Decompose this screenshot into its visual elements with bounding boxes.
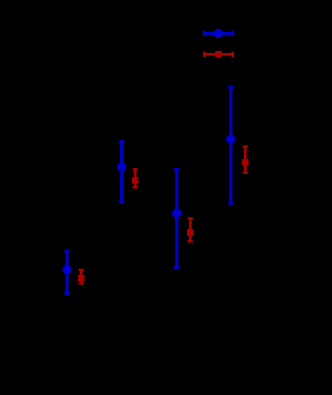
- blue point 1 circle marker: [62, 265, 71, 274]
- legend red series: error bar line: [204, 53, 232, 56]
- red point 3 error bar line: [189, 218, 192, 241]
- red point 3 top cap: [188, 217, 193, 219]
- red point 1 top cap: [79, 269, 84, 271]
- blue point 2 top cap: [119, 140, 124, 143]
- blue point 4 circle marker: [226, 134, 235, 143]
- blue point 3 top cap: [174, 168, 179, 171]
- red point 2 error bar line: [134, 169, 137, 187]
- red point 3 square marker: [187, 229, 194, 236]
- blue point 4 error bar line: [229, 87, 232, 203]
- legend red series: square marker: [215, 51, 222, 58]
- blue point 3 circle marker: [172, 208, 181, 217]
- blue point 2 error bar line: [120, 142, 123, 203]
- red point 4 square marker: [242, 159, 249, 166]
- blue point 4 bottom cap: [228, 202, 233, 205]
- blue point 1 bottom cap: [64, 292, 69, 295]
- blue point 4 top cap: [228, 86, 233, 89]
- blue point 2 bottom cap: [119, 201, 124, 204]
- red point 3 bottom cap: [188, 240, 193, 242]
- legend blue series: error bar line: [204, 32, 233, 35]
- red point 2 square marker: [132, 177, 139, 184]
- red point 4 error bar line: [244, 147, 247, 173]
- blue point 3 error bar line: [175, 169, 178, 267]
- red point 2 bottom cap: [133, 186, 138, 188]
- legend blue series: left cap: [203, 31, 206, 36]
- red point 1 bottom cap: [79, 282, 84, 284]
- red point 2 top cap: [133, 168, 138, 170]
- blue point 1 error bar line: [65, 251, 68, 294]
- legend red series: left cap: [203, 52, 206, 57]
- red point 1 square marker: [78, 275, 85, 282]
- blue point 3 bottom cap: [174, 266, 179, 269]
- red point 1 error bar line: [80, 270, 83, 284]
- blue point 1 top cap: [64, 250, 69, 253]
- blue point 2 circle marker: [117, 162, 126, 171]
- red point 4 bottom cap: [243, 171, 248, 173]
- legend blue series: right cap: [231, 31, 234, 36]
- legend blue series: circle marker: [214, 29, 223, 38]
- red point 4 top cap: [243, 145, 248, 147]
- legend red series: right cap: [231, 52, 234, 57]
